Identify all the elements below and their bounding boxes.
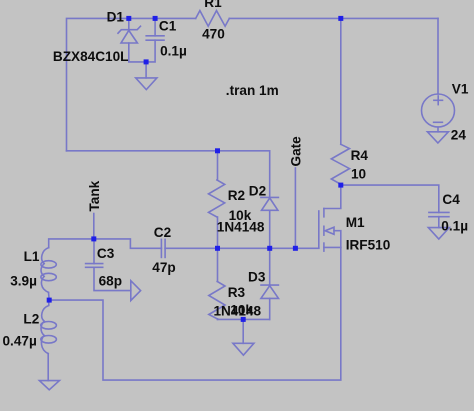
svg-text:R4: R4 bbox=[351, 148, 369, 163]
svg-text:L1: L1 bbox=[24, 249, 40, 264]
svg-text:D3: D3 bbox=[248, 269, 266, 284]
svg-text:C3: C3 bbox=[97, 246, 115, 261]
svg-text:0.1µ: 0.1µ bbox=[160, 44, 187, 59]
svg-text:1N4148: 1N4148 bbox=[214, 304, 262, 319]
svg-text:R2: R2 bbox=[228, 188, 246, 203]
svg-text:Gate: Gate bbox=[289, 136, 304, 167]
svg-text:D1: D1 bbox=[107, 10, 125, 25]
svg-text:3.9µ: 3.9µ bbox=[10, 274, 37, 289]
svg-text:V1: V1 bbox=[452, 82, 469, 97]
svg-text:68p: 68p bbox=[99, 274, 122, 289]
svg-text:47p: 47p bbox=[152, 260, 175, 275]
svg-text:M1: M1 bbox=[346, 215, 365, 230]
svg-text:D2: D2 bbox=[249, 184, 267, 199]
svg-text:BZX84C10L: BZX84C10L bbox=[53, 49, 129, 64]
svg-text:L2: L2 bbox=[23, 311, 39, 326]
svg-text:470: 470 bbox=[202, 26, 225, 41]
svg-text:C1: C1 bbox=[159, 19, 177, 34]
svg-text:24: 24 bbox=[451, 127, 467, 142]
svg-text:0.47µ: 0.47µ bbox=[3, 334, 37, 349]
svg-text:Tank: Tank bbox=[87, 180, 102, 211]
svg-text:R1: R1 bbox=[204, 0, 222, 10]
svg-text:IRF510: IRF510 bbox=[346, 238, 391, 253]
svg-text:.tran 1m: .tran 1m bbox=[226, 83, 279, 98]
svg-text:1N4148: 1N4148 bbox=[217, 219, 265, 234]
svg-text:R3: R3 bbox=[228, 285, 246, 300]
svg-text:10: 10 bbox=[351, 167, 366, 182]
svg-text:C4: C4 bbox=[442, 192, 460, 207]
svg-text:C2: C2 bbox=[154, 225, 172, 240]
svg-text:0.1µ: 0.1µ bbox=[441, 219, 468, 234]
